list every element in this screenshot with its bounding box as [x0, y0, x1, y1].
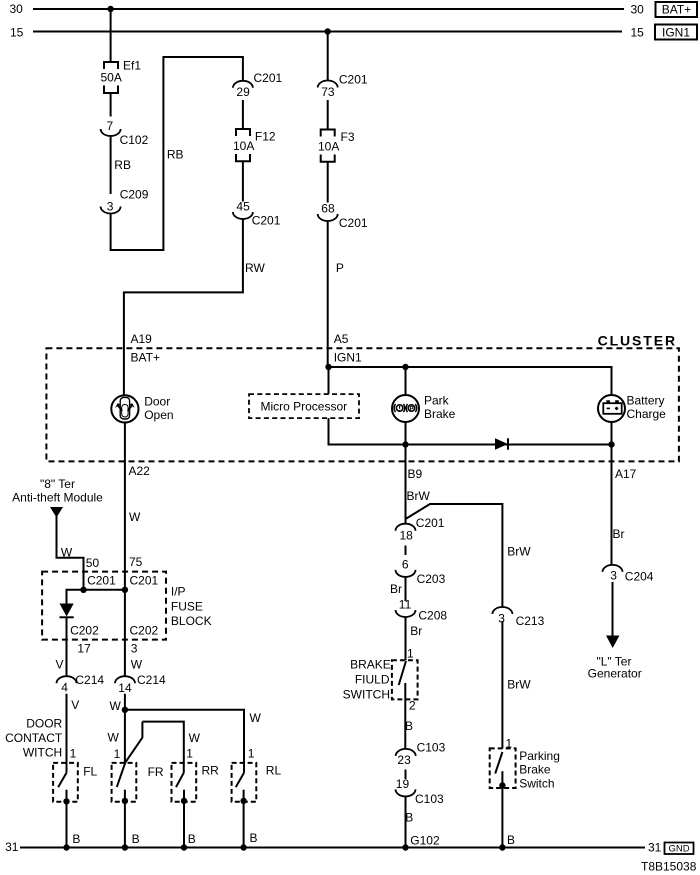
svg-text:C202: C202 [70, 624, 99, 638]
svg-text:6: 6 [402, 558, 409, 572]
label I/P FUSE BLOCK [171, 585, 212, 629]
svg-text:C213: C213 [516, 614, 545, 628]
wire F12 to C201-45 [242, 161, 244, 201]
svg-text:B: B [507, 833, 515, 847]
svg-text:Brake: Brake [519, 763, 551, 777]
svg-text:C103: C103 [417, 741, 446, 755]
svg-text:Park: Park [424, 394, 450, 408]
svg-text:Ef1: Ef1 [123, 59, 141, 73]
svg-text:A17: A17 [615, 467, 637, 481]
svg-text:FUSE: FUSE [171, 600, 203, 614]
svg-text:Parking: Parking [519, 749, 560, 763]
svg-text:RW: RW [245, 261, 265, 275]
svg-text:3: 3 [107, 200, 114, 214]
svg-text:Brake: Brake [424, 407, 456, 421]
wire parking brake switch to ground rail [501, 786, 503, 848]
svg-text:Anti-theft Module: Anti-theft Module [12, 491, 103, 505]
switch FR [112, 763, 137, 805]
wire Door Open lamp to A22 exit [124, 423, 126, 677]
svg-text:30: 30 [631, 3, 645, 17]
CLUSTER dashed box [46, 348, 679, 461]
svg-text:B: B [405, 811, 413, 825]
svg-text:P: P [409, 407, 413, 413]
svg-text:DOOR: DOOR [26, 717, 62, 731]
wire dashed C201-C203 mate [405, 546, 407, 556]
svg-text:RL: RL [266, 764, 282, 778]
label DOOR CONTACT WITCH [5, 717, 63, 760]
svg-text:10A: 10A [233, 139, 254, 153]
wire Ef1 to C102 [110, 93, 112, 117]
svg-text:BrW: BrW [407, 489, 431, 503]
svg-text:BAT+: BAT+ [131, 351, 160, 365]
diode D1 cluster [495, 438, 508, 449]
node fuse block left junction [80, 587, 86, 593]
svg-text:Micro Processor: Micro Processor [260, 400, 347, 414]
svg-text:W: W [129, 510, 141, 524]
switch parking brake [490, 748, 516, 788]
lamp Door Open [111, 395, 138, 422]
svg-text:C209: C209 [120, 188, 149, 202]
svg-text:Br: Br [390, 582, 402, 596]
bus 30 rail [33, 8, 624, 10]
connector C208 pin 11 [396, 598, 448, 623]
connector C103 pin 19 [396, 777, 445, 806]
svg-text:A22: A22 [129, 464, 151, 478]
svg-text:C103: C103 [415, 792, 444, 806]
svg-text:1: 1 [248, 747, 255, 761]
wire to diode [67, 590, 84, 604]
switch RR [172, 763, 197, 804]
svg-text:29: 29 [236, 85, 250, 99]
svg-text:C201: C201 [130, 574, 159, 588]
svg-text:C201: C201 [416, 516, 445, 530]
svg-text:B: B [250, 831, 258, 845]
connector C102 pin 7 [101, 119, 149, 147]
connector C201 pin 29 [233, 71, 283, 99]
svg-text:73: 73 [321, 85, 335, 99]
node rail31 parking [499, 844, 505, 850]
wire Br C203 to C208 [405, 577, 407, 601]
label BRAKE FIULD SWITCH [343, 658, 391, 702]
svg-text:4: 4 [61, 681, 68, 695]
svg-text:FR: FR [148, 765, 164, 779]
label Parking Brake Switch [519, 749, 560, 791]
svg-text:BAT+: BAT+ [662, 3, 691, 17]
wire fuse block link [84, 589, 125, 591]
arrow to L terminal generator [606, 636, 620, 649]
svg-text:W: W [250, 711, 262, 725]
GND box [665, 843, 694, 855]
svg-text:14: 14 [118, 681, 132, 695]
svg-text:C214: C214 [137, 673, 166, 687]
lamp Battery Charge [598, 395, 625, 422]
micro processor U1 [249, 394, 359, 418]
svg-text:A19: A19 [131, 332, 153, 346]
svg-text:11: 11 [399, 598, 412, 612]
wire micro processor to cluster bottom line [329, 418, 612, 444]
svg-text:7: 7 [107, 119, 114, 133]
node rail31 FR [122, 844, 128, 850]
svg-text:C204: C204 [625, 570, 654, 584]
svg-text:WITCH: WITCH [23, 746, 62, 760]
svg-text:10A: 10A [318, 140, 339, 154]
wire dashed C103 mate [405, 770, 407, 780]
svg-text:Br: Br [613, 527, 625, 541]
wire park brake lamp to B9 exit [405, 367, 407, 524]
svg-text:F12: F12 [255, 130, 276, 144]
svg-text:FIULD: FIULD [355, 673, 390, 687]
svg-text:31: 31 [648, 841, 662, 855]
connector C214 pin 14 [115, 673, 166, 695]
svg-text:BrW: BrW [507, 545, 531, 559]
wire rail15 to C201-73 [327, 32, 329, 81]
svg-text:T8B15038: T8B15038 [641, 860, 697, 874]
label Door Open [144, 395, 173, 422]
wire door harness to RL [125, 710, 244, 773]
svg-text:G102: G102 [410, 834, 440, 848]
svg-text:CLUSTER: CLUSTER [598, 333, 677, 349]
wire branch B9 to C213 [406, 504, 503, 607]
svg-text:P: P [336, 261, 344, 275]
svg-text:Switch: Switch [519, 777, 554, 791]
svg-text:B: B [132, 832, 140, 846]
connector C209 pin 3 [101, 188, 149, 214]
wire RL to ground rail [243, 801, 245, 848]
svg-text:"8" Ter: "8" Ter [40, 477, 75, 491]
wire C204 to generator arrow [612, 582, 614, 636]
connector C201 pin 45 [233, 200, 281, 228]
svg-text:V: V [56, 658, 64, 672]
svg-text:C102: C102 [120, 133, 149, 147]
label L Ter Generator [588, 655, 642, 681]
wire IGN1 to micro processor [328, 367, 330, 394]
fuse F12 10A [236, 129, 250, 161]
svg-text:C203: C203 [417, 572, 446, 586]
wire W C214-14 to FR switch [124, 694, 126, 763]
connector C201 pin 18 [396, 516, 445, 543]
svg-text:W: W [108, 731, 120, 745]
wire C201-29 to F12 [242, 100, 244, 129]
connector C103 pin 23 [396, 741, 446, 768]
wire RR to ground rail [183, 801, 185, 848]
svg-text:W: W [131, 658, 143, 672]
wire battery lamp to A17 exit [611, 422, 613, 565]
svg-text:W: W [189, 731, 201, 745]
svg-text:C201: C201 [339, 216, 368, 230]
wire FL to ground rail [66, 801, 68, 847]
svg-text:3: 3 [610, 569, 617, 583]
svg-text:C201: C201 [252, 214, 281, 228]
connector C203 pin 6 [396, 558, 446, 587]
svg-text:19: 19 [396, 777, 410, 791]
diode D2 fuse block [60, 604, 74, 618]
svg-text:2: 2 [409, 699, 416, 713]
svg-text:45: 45 [236, 200, 250, 214]
node park brake top junction [402, 364, 408, 370]
IGN1 box [655, 25, 697, 40]
svg-text:Generator: Generator [588, 667, 642, 681]
svg-text:W: W [110, 699, 122, 713]
node rail31 RR [181, 844, 187, 850]
svg-text:15: 15 [10, 25, 24, 39]
I/P fuse block dashed box [42, 572, 166, 640]
node battery bottom junction [608, 441, 614, 447]
svg-text:C201: C201 [87, 574, 116, 588]
wire C201-73 to F3 [327, 100, 329, 130]
svg-text:BLOCK: BLOCK [171, 614, 212, 628]
wire W anti-theft to fuse block pin 50 [57, 516, 84, 590]
svg-text:1: 1 [114, 747, 121, 761]
node IGN1 junction [325, 364, 331, 370]
arrow from anti-theft module [50, 507, 63, 518]
node rail31 RL [240, 844, 246, 850]
wire V C214-4 to FL switch [66, 694, 68, 773]
svg-text:C201: C201 [339, 73, 368, 87]
node rail31 G102 [402, 844, 408, 850]
svg-text:SWITCH: SWITCH [343, 688, 390, 702]
svg-text:B9: B9 [408, 467, 423, 481]
svg-text:15: 15 [631, 26, 645, 40]
wire BrW C213 to parking brake switch [501, 621, 503, 748]
connector C213 pin 3 [492, 607, 544, 628]
svg-text:Open: Open [144, 408, 173, 422]
wire B C103 to G102 [405, 796, 407, 847]
svg-text:IGN1: IGN1 [662, 26, 690, 40]
label anti-theft module [12, 477, 103, 505]
node fuse block right junction [122, 587, 128, 593]
svg-text:BrW: BrW [507, 678, 531, 692]
svg-text:V: V [71, 698, 79, 712]
svg-text:B: B [72, 832, 80, 846]
node park brake bottom junction [402, 441, 408, 447]
svg-text:C214: C214 [75, 673, 104, 687]
svg-text:I/P: I/P [171, 585, 186, 599]
wire RW C201-45 to cluster A19 [124, 219, 243, 395]
svg-text:F3: F3 [341, 130, 355, 144]
svg-text:C201: C201 [254, 71, 283, 85]
switch brake fluid [392, 660, 418, 699]
svg-text:Door: Door [144, 395, 170, 409]
svg-text:17: 17 [77, 642, 91, 656]
svg-text:RB: RB [167, 148, 184, 162]
svg-text:31: 31 [5, 840, 19, 854]
wire B brake fluid switch to C103 [404, 699, 406, 749]
node rail31 FL [63, 844, 69, 850]
svg-text:Charge: Charge [627, 407, 667, 421]
node rail15 junction [325, 28, 331, 34]
wire FR to ground rail [124, 801, 126, 848]
bus 31 ground rail [20, 847, 645, 849]
svg-text:B: B [405, 719, 413, 733]
svg-text:1: 1 [407, 647, 414, 661]
wire diode to C214-4 [66, 617, 68, 676]
connector C214 pin 4 [57, 673, 105, 695]
BAT+ box [656, 2, 698, 17]
svg-text:50A: 50A [101, 71, 122, 85]
wire C209 down around and up to C201-29 [111, 57, 243, 250]
svg-text:1: 1 [70, 747, 77, 761]
fuse F3 10A [321, 130, 335, 162]
bus 15 rail [33, 31, 622, 33]
connector C201 pin 68 [318, 202, 368, 231]
connector C204 pin 3 [603, 565, 654, 584]
fuse Ef1 50A [104, 62, 118, 93]
wire cluster top feed line [329, 367, 612, 395]
svg-text:CONTACT: CONTACT [5, 731, 63, 745]
svg-text:RB: RB [114, 158, 131, 172]
svg-text:1: 1 [186, 747, 193, 761]
switch FL [53, 763, 78, 805]
svg-text:Battery: Battery [627, 394, 665, 408]
svg-text:30: 30 [10, 2, 24, 16]
wire F3 to C201-68 [327, 162, 329, 203]
wire RB C102 to C209 [110, 136, 112, 194]
svg-text:BRAKE: BRAKE [350, 658, 391, 672]
svg-text:C208: C208 [418, 609, 447, 623]
svg-text:23: 23 [397, 753, 411, 767]
wire P C201-68 to cluster A5 [327, 221, 329, 367]
svg-text:18: 18 [400, 529, 414, 543]
svg-text:Br: Br [410, 624, 422, 638]
node door harness junction [122, 707, 128, 713]
svg-text:68: 68 [321, 202, 335, 216]
svg-text:75: 75 [129, 555, 143, 569]
wire Br C208 to brake fluid switch [405, 617, 407, 660]
connector C201 pin 73 [318, 73, 368, 100]
label Park Brake [424, 394, 456, 422]
svg-text:IGN1: IGN1 [334, 351, 362, 365]
svg-text:W: W [61, 546, 73, 560]
wire rail30 to fuse Ef1 [110, 9, 112, 62]
switch RL [232, 763, 257, 804]
label Battery Charge [627, 394, 667, 422]
svg-text:B: B [188, 832, 196, 846]
svg-text:50: 50 [86, 556, 100, 570]
svg-text:RR: RR [202, 764, 220, 778]
svg-text:C202: C202 [130, 624, 159, 638]
svg-text:FL: FL [83, 765, 97, 779]
lamp Park Brake [392, 395, 419, 422]
svg-text:3: 3 [131, 642, 138, 656]
node rail30 junction [107, 6, 113, 12]
wire door harness FR-RR branch [125, 722, 184, 773]
svg-text:GND: GND [668, 844, 689, 855]
svg-text:A5: A5 [334, 332, 349, 346]
